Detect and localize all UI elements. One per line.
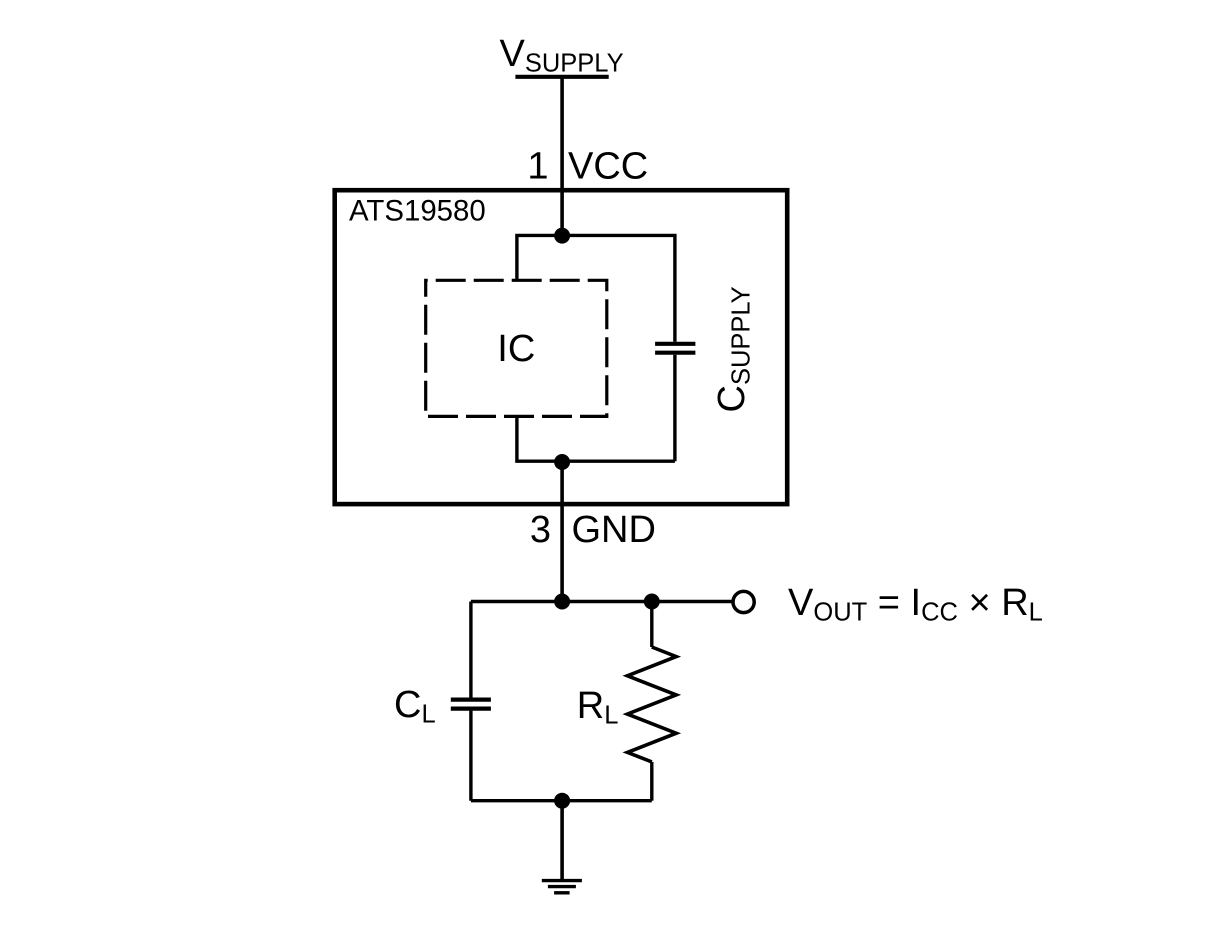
capacitor CSUPPLY bottom plate (655, 351, 695, 355)
terminal VOUT (733, 591, 754, 612)
wire VCC internal top rail (517, 235, 675, 341)
resistor RL bottom lead (650, 762, 653, 801)
wire ground stem (560, 801, 564, 881)
svg-text:VCC: VCC (568, 145, 648, 187)
wire VSUPPLY to pin 1 (560, 77, 564, 236)
wire CSUPPLY bottom lead (673, 355, 676, 461)
wire output node rail (471, 600, 732, 603)
wire pin 3 GND (560, 461, 564, 601)
capacitor CL top plate (451, 697, 491, 701)
svg-text:1: 1 (527, 145, 548, 187)
svg-text:3: 3 (530, 509, 551, 551)
capacitor CL bottom lead (469, 711, 472, 801)
capacitor CL top lead (469, 602, 472, 698)
IC package box ATS19580 (335, 190, 788, 504)
resistor RL zigzag (627, 647, 676, 762)
wire bottom rail (471, 799, 652, 802)
power rail VSUPPLY bar (515, 75, 608, 79)
junction node VCC internal (554, 228, 570, 244)
svg-text:GND: GND (572, 509, 656, 551)
capacitor CL bottom plate (451, 706, 491, 710)
junction node B (644, 594, 660, 610)
IC dashed block (426, 280, 607, 416)
wire GND internal bottom rail (517, 416, 675, 461)
svg-text:ATS19580: ATS19580 (349, 195, 486, 228)
junction node GND internal (554, 454, 570, 470)
resistor RL top lead (650, 602, 653, 648)
junction node bottom (554, 793, 570, 809)
svg-text:IC: IC (497, 328, 535, 370)
junction node A (554, 594, 570, 610)
capacitor CSUPPLY top plate (655, 342, 695, 346)
ground (542, 881, 582, 893)
